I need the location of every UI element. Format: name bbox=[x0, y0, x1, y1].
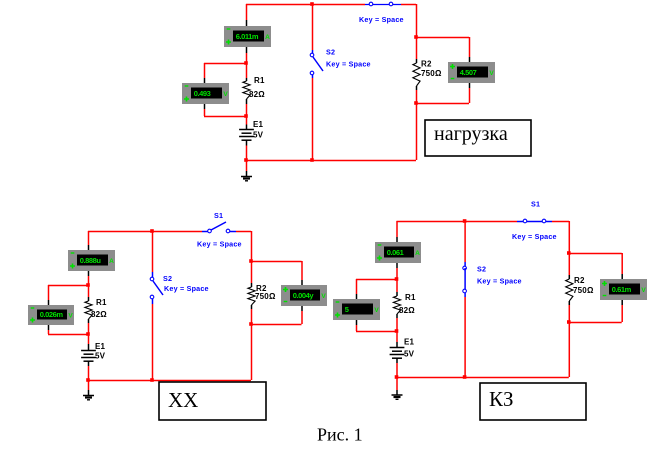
svg-text:V: V bbox=[374, 307, 379, 314]
svg-text:Рис. 1: Рис. 1 bbox=[317, 425, 363, 445]
svg-text:A: A bbox=[415, 250, 420, 257]
svg-text:Key = Space: Key = Space bbox=[164, 284, 209, 293]
svg-text:0.061: 0.061 bbox=[387, 248, 404, 257]
svg-text:750Ω: 750Ω bbox=[573, 286, 594, 295]
svg-text:S2: S2 bbox=[477, 265, 486, 274]
svg-text:82Ω: 82Ω bbox=[249, 90, 265, 99]
svg-text:0.026m: 0.026m bbox=[40, 310, 64, 319]
svg-text:R2: R2 bbox=[574, 276, 585, 285]
svg-text:A: A bbox=[109, 258, 114, 265]
svg-text:S1: S1 bbox=[214, 211, 223, 220]
svg-text:5V: 5V bbox=[404, 350, 415, 359]
svg-text:V: V bbox=[68, 313, 73, 320]
svg-text:V: V bbox=[321, 293, 326, 300]
svg-text:R1: R1 bbox=[254, 76, 265, 85]
svg-text:V: V bbox=[489, 70, 494, 77]
svg-text:E1: E1 bbox=[95, 342, 106, 351]
svg-text:Key = Space: Key = Space bbox=[359, 15, 404, 24]
svg-text:0.61m: 0.61m bbox=[612, 285, 632, 294]
svg-text:82Ω: 82Ω bbox=[91, 310, 107, 319]
svg-text:S1: S1 bbox=[531, 200, 540, 209]
svg-text:Key = Space: Key = Space bbox=[512, 232, 557, 241]
svg-text:4.507: 4.507 bbox=[460, 68, 477, 77]
svg-text:750Ω: 750Ω bbox=[255, 292, 276, 301]
svg-text:R1: R1 bbox=[405, 293, 416, 302]
svg-text:82Ω: 82Ω bbox=[399, 306, 415, 315]
svg-text:6.011m: 6.011m bbox=[236, 32, 259, 41]
svg-text:Key = Space: Key = Space bbox=[197, 240, 242, 249]
svg-text:0.493: 0.493 bbox=[194, 89, 211, 98]
svg-text:КЗ: КЗ bbox=[489, 387, 514, 411]
svg-text:XX: XX bbox=[168, 388, 198, 412]
svg-text:V: V bbox=[641, 287, 646, 294]
svg-text:нагрузка: нагрузка bbox=[434, 123, 508, 145]
svg-text:0.888u: 0.888u bbox=[80, 256, 102, 265]
svg-text:E1: E1 bbox=[253, 120, 264, 129]
svg-text:A: A bbox=[265, 34, 270, 41]
svg-text:Key = Space: Key = Space bbox=[326, 60, 371, 69]
svg-text:0.004y: 0.004y bbox=[293, 291, 315, 300]
svg-text:750Ω: 750Ω bbox=[421, 69, 442, 78]
svg-text:Key = Space: Key = Space bbox=[477, 277, 522, 286]
svg-text:S2: S2 bbox=[163, 274, 172, 283]
svg-text:E1: E1 bbox=[404, 338, 415, 347]
svg-text:5V: 5V bbox=[95, 352, 106, 361]
svg-text:R1: R1 bbox=[96, 298, 107, 307]
svg-text:V: V bbox=[223, 91, 228, 98]
svg-text:S2: S2 bbox=[326, 48, 335, 57]
svg-text:5V: 5V bbox=[253, 131, 264, 140]
svg-text:R2: R2 bbox=[421, 60, 432, 69]
svg-text:5: 5 bbox=[345, 305, 349, 314]
